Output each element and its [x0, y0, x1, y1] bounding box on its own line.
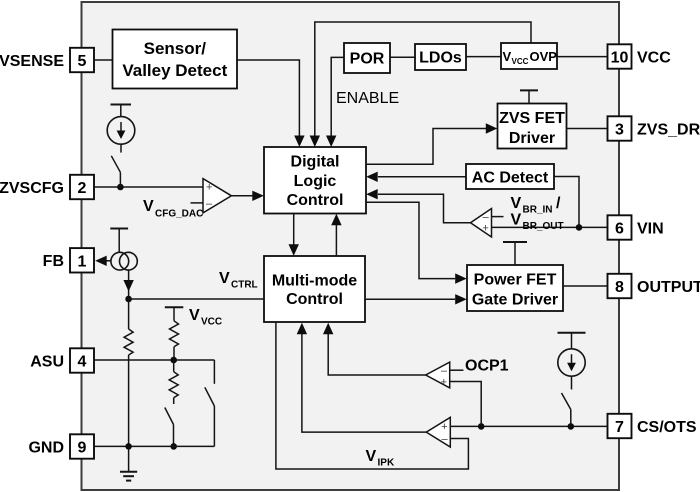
wire pin 9 row (GND) [94, 445, 214, 447]
svg-text:3: 3 [615, 122, 624, 139]
svg-text:+: + [441, 377, 447, 389]
svg-text:VSENSE: VSENSE [0, 53, 64, 70]
svg-text:ENABLE: ENABLE [336, 90, 399, 107]
svg-text:Multi-mode: Multi-mode [272, 273, 357, 290]
node VIN junction [576, 224, 583, 231]
svg-text:Logic: Logic [294, 173, 337, 190]
resistor R3 (below ASU node) [173, 360, 175, 372]
block Digital Logic Control [264, 147, 366, 214]
svg-text:5: 5 [78, 53, 87, 70]
block AC Detect [466, 164, 554, 189]
wire multi-mode control up to digital logic control [335, 225, 337, 256]
svg-text:1: 1 [78, 253, 87, 270]
svg-text:ZVS FET: ZVS FET [499, 110, 565, 127]
stub OCP1 reference input [450, 369, 464, 371]
pin 9 GND [70, 434, 94, 458]
switch S1 (ZVSCFG) [111, 156, 120, 173]
svg-text:10: 10 [611, 50, 629, 67]
current mirror circles (FB) [111, 252, 129, 270]
wire OCP1 + input to CS row [450, 382, 482, 427]
svg-text:V: V [511, 212, 522, 229]
wire POR to LDOs [390, 56, 415, 58]
pin 1 FB [70, 248, 94, 272]
svg-text:CS/OTS: CS/OTS [637, 419, 697, 436]
svg-text:VCC: VCC [512, 57, 529, 66]
pin 7 CS/OTS [608, 414, 632, 438]
svg-text:9: 9 [78, 440, 87, 457]
pin 8 OUTPUT [608, 274, 632, 298]
svg-text:2: 2 [78, 180, 87, 197]
wire VBR comparator + input to pin 6 [492, 226, 608, 228]
svg-text:Control: Control [287, 192, 344, 209]
svg-text:AC Detect: AC Detect [472, 170, 549, 187]
wire OCP1 output to multi-mode control [328, 334, 426, 375]
node GND junction 1 [125, 443, 132, 450]
wire pin5 to sensor block [93, 59, 113, 61]
node FB junction [125, 296, 132, 303]
svg-text:+: + [441, 421, 447, 433]
svg-text:VIN: VIN [637, 220, 664, 237]
node CS junction 2 [568, 423, 575, 430]
pin 5 VSENSE [70, 48, 94, 72]
svg-text:Control: Control [286, 291, 343, 308]
block POR [344, 43, 390, 73]
wire digital logic control to Power FET Gate Driver [366, 202, 455, 278]
svg-text:V: V [366, 448, 377, 465]
svg-text:V: V [189, 307, 200, 324]
pin 10 VCC [608, 44, 632, 68]
pin 2 ZVSCFG [70, 175, 94, 199]
wire VBR comparator output to digital logic control [378, 194, 471, 223]
block Vvcc OVP [501, 43, 557, 69]
supply bar above CS current source [558, 332, 586, 334]
svg-text:Digital: Digital [291, 154, 340, 171]
resistor R1 (FB divider) [124, 329, 133, 355]
svg-text:OCP1: OCP1 [465, 358, 509, 375]
node ASU junction [170, 357, 177, 364]
svg-text:BR_OUT: BR_OUT [523, 221, 564, 232]
pin 4 ASU [70, 348, 94, 372]
block Power FET Gate Driver [467, 265, 563, 311]
supply bar above ZVSCFG current source [111, 104, 132, 106]
svg-text:V: V [511, 195, 522, 212]
pin 3 ZVS_DR [608, 116, 632, 140]
block LDOs [415, 44, 466, 70]
current source I2 (CS/OTS) [558, 349, 585, 376]
supply bar above ZVS FET Driver [520, 89, 538, 91]
wire VCTRL from FB node to multi-mode control [129, 298, 264, 300]
wire LDOs to Vvcc OVP [466, 56, 501, 58]
comparator VCFG_DAC [203, 179, 231, 213]
svg-text:Sensor/: Sensor/ [144, 39, 207, 58]
wire VIPK output to multi-mode control [302, 334, 426, 432]
node CS junction 1 [478, 423, 485, 430]
svg-text:VCC: VCC [637, 49, 671, 66]
svg-text:ASU: ASU [30, 353, 64, 370]
wire FB node down to GND row [128, 299, 130, 329]
wire Vvcc OVP to pin 10 [557, 56, 608, 58]
svg-text:OUTPUT: OUTPUT [637, 279, 700, 296]
wire FB mirror down with arrow [128, 270, 130, 299]
comparator VBR (AC line detect) [471, 209, 492, 238]
svg-text:CTRL: CTRL [231, 280, 258, 291]
ground symbol [128, 446, 130, 471]
arrow into pin 1 (FB) [107, 260, 112, 262]
wire CS row to pin 7 [450, 425, 607, 427]
wire Power FET Gate Driver to pin 8 [563, 285, 608, 287]
svg-text:Valley Detect: Valley Detect [122, 61, 227, 80]
svg-text:ZVSCFG: ZVSCFG [0, 180, 64, 197]
block Multi-mode Control [264, 256, 365, 322]
stub VBR reference input [492, 216, 504, 218]
svg-text:Gate Driver: Gate Driver [472, 292, 558, 309]
svg-text:FB: FB [43, 253, 64, 270]
block Sensor/Valley Detect [113, 30, 238, 89]
wire digital logic control to ZVS FET Driver [366, 129, 486, 165]
wire VIPK - input loop from multi-mode control [276, 322, 469, 469]
comparator OCP1 [426, 362, 450, 388]
wire digital logic control down to multi-mode control [293, 214, 295, 245]
svg-text:6: 6 [615, 221, 624, 238]
svg-text:8: 8 [615, 279, 624, 296]
svg-text:V: V [219, 270, 230, 287]
switch S2 (left GND leg) [165, 408, 174, 425]
svg-text:7: 7 [615, 419, 624, 436]
resistor R2 (VVCC pull-up) [170, 321, 179, 347]
svg-text:V: V [503, 49, 512, 64]
svg-text:–: – [441, 365, 448, 377]
svg-text:CFG_DAC: CFG_DAC [155, 209, 203, 220]
supply bar above Power FET Gate Driver [503, 241, 527, 243]
svg-text:/: / [556, 195, 561, 212]
wire Vvcc OVP top to digital logic control top [315, 22, 531, 136]
svg-text:Driver: Driver [509, 130, 555, 147]
supply bar above FB current mirror [110, 228, 128, 230]
svg-text:–: – [441, 434, 448, 446]
svg-text:V: V [143, 198, 154, 215]
svg-text:–: – [206, 198, 213, 210]
chip body U1 [82, 2, 620, 490]
wire pin 2 to VCFG comparator [94, 186, 203, 188]
node ZVSCFG junction [117, 184, 124, 191]
wire sensor output to digital logic control top [237, 60, 299, 136]
comparator VIPK [426, 417, 450, 447]
wire AC Detect to digital logic control [378, 176, 466, 178]
svg-text:VCC: VCC [201, 317, 222, 328]
current source I1 (ZVSCFG) [107, 117, 135, 145]
svg-text:IPK: IPK [378, 458, 395, 469]
block ZVS FET Driver [498, 104, 567, 149]
switch S3 (right GND leg) [205, 387, 215, 406]
supply bar VVCC [165, 306, 184, 308]
svg-text:OVP: OVP [530, 49, 558, 64]
svg-text:4: 4 [78, 354, 87, 371]
svg-text:+: + [206, 182, 212, 194]
svg-text:POR: POR [350, 51, 385, 68]
svg-text:Power FET: Power FET [474, 272, 557, 289]
svg-text:GND: GND [28, 439, 64, 456]
wire multi-mode control to Power FET Gate Driver [365, 298, 455, 300]
wire pin 4 row (ASU) [94, 359, 214, 361]
node GND junction 2 [170, 443, 177, 450]
svg-text:LDOs: LDOs [419, 50, 462, 67]
pin 6 VIN [608, 215, 632, 239]
switch S4 (CS/OTS) [562, 393, 571, 410]
wire ZVS FET Driver to pin 3 [567, 128, 608, 130]
wire right ASU branch down [213, 360, 215, 384]
svg-text:BR_IN: BR_IN [523, 205, 553, 216]
wire AC Detect to VIN node [554, 177, 579, 228]
wire VCFG comparator output to digital logic control [231, 195, 252, 197]
stub VCFG_DAC reference input [191, 202, 204, 204]
wire ENABLE from POR to digital logic control top [331, 57, 344, 135]
svg-text:+: + [482, 223, 488, 235]
svg-text:ZVS_DR: ZVS_DR [637, 121, 700, 138]
